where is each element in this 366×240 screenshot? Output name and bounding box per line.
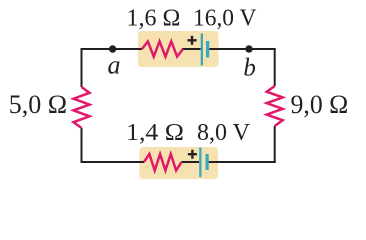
value label 1,4 ohm of R2: [126, 120, 184, 146]
wire battery E2 to bottom-right corner: [209, 161, 276, 163]
svg-text:a: a: [108, 51, 121, 80]
resistor R1 (1,6 ohm, top branch): [142, 41, 183, 56]
resistor R4 (9,0 ohm, right branch): [267, 86, 283, 126]
wire bottom-left segment (corner to R2): [81, 161, 145, 163]
battery E2 long plate (positive terminal, 8,0 V): [199, 148, 201, 178]
svg-text:16,0 V: 16,0 V: [193, 6, 257, 32]
svg-text:1,4 Ω: 1,4 Ω: [126, 120, 184, 146]
value label 5,0 ohm of R3: [9, 90, 67, 119]
highlight box around R2 and battery E2 (bottom branch): [140, 147, 219, 179]
svg-text:1,6 Ω: 1,6 Ω: [127, 6, 181, 32]
plus sign of battery E1: [188, 36, 197, 45]
node a (junction dot on top wire): [109, 45, 116, 52]
svg-text:8,0 V: 8,0 V: [197, 120, 251, 146]
value label 8,0 V of battery E2: [197, 120, 251, 146]
value label 1,6 ohm of R1: [127, 6, 181, 32]
wire top-left segment (corner to R1): [81, 48, 143, 50]
label of node b: [243, 54, 256, 81]
plus sign of battery E2: [188, 150, 197, 159]
label of node a: [108, 51, 121, 80]
battery E1 long plate (positive terminal, 16,0 V): [201, 34, 203, 66]
resistor R2 (1,4 ohm, bottom branch): [144, 154, 182, 171]
battery E2 short plate (negative terminal): [206, 154, 209, 170]
svg-text:b: b: [243, 54, 256, 81]
node b (junction dot on top wire): [245, 45, 252, 52]
wire left side upper (top-left corner down to R3): [81, 48, 83, 87]
svg-text:9,0 Ω: 9,0 Ω: [291, 90, 349, 119]
value label 9,0 ohm of R4: [291, 90, 349, 119]
battery E1 short plate (negative terminal): [206, 41, 209, 58]
wire battery E1 to top-right corner: [209, 48, 276, 50]
highlight box around R1 and battery E1 (top branch): [138, 31, 219, 67]
wire right side lower (R4 to bottom-right corner): [274, 126, 276, 163]
resistor R3 (5,0 ohm, left branch): [74, 87, 90, 128]
value label 16,0 V of battery E1: [193, 6, 257, 32]
wire right side upper (top-right corner down to R4): [274, 48, 276, 86]
wire between R2 and battery E2: [182, 161, 200, 163]
wire between R1 and battery E1: [182, 48, 201, 50]
svg-text:5,0 Ω: 5,0 Ω: [9, 90, 67, 119]
wire left side lower (R3 to bottom-left corner): [81, 128, 83, 163]
